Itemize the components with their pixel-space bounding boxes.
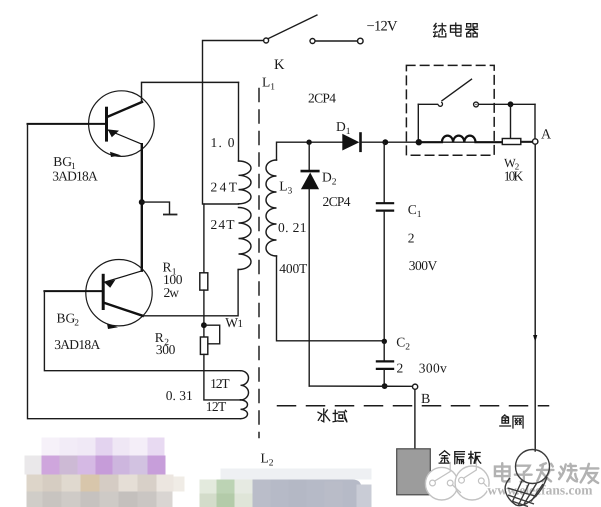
svg-text:2CP4: 2CP4 bbox=[308, 91, 336, 106]
potentiometer W1 wiper wiring bbox=[204, 325, 220, 344]
svg-text:300v: 300v bbox=[419, 361, 447, 376]
svg-text:2: 2 bbox=[397, 361, 404, 376]
label C1 2 300V bbox=[408, 202, 438, 273]
wire node B to metal plate bbox=[414, 389, 416, 449]
wire secondary bottom to C2 bbox=[277, 256, 385, 341]
wire W2 wiper bbox=[511, 104, 536, 139]
label A bbox=[541, 128, 552, 143]
transformer core (dashed) bbox=[258, 89, 260, 438]
junction dot C2 top bbox=[382, 339, 387, 344]
transformer feedback winding 12T upper bbox=[241, 371, 249, 400]
label R1 100 2w bbox=[163, 260, 183, 301]
label L3 bbox=[279, 179, 292, 197]
node B terminal bbox=[413, 384, 418, 389]
svg-text:1: 1 bbox=[270, 83, 275, 93]
wire BG2 base feedback rail bbox=[44, 291, 240, 371]
fish net sketch bbox=[505, 450, 549, 507]
label W2 10K bbox=[504, 156, 524, 184]
label D1 bbox=[336, 119, 351, 137]
svg-text:L: L bbox=[261, 451, 269, 466]
label 24T upper bbox=[211, 180, 238, 195]
label 1.0 bbox=[211, 135, 235, 150]
svg-text:12T: 12T bbox=[206, 399, 227, 414]
svg-text:0. 21: 0. 21 bbox=[278, 220, 307, 235]
label 12T lower bbox=[206, 399, 227, 414]
metal plate bbox=[397, 449, 431, 495]
wire BG1 base feedback rail bbox=[28, 124, 241, 419]
svg-text:3AD18A: 3AD18A bbox=[52, 169, 98, 184]
junction dot C1 top bbox=[382, 139, 388, 145]
label 12T upper bbox=[210, 376, 230, 391]
switch K bbox=[264, 15, 364, 44]
wire R2 to feedback tap bbox=[204, 354, 241, 400]
transformer primary winding lower 24T bbox=[239, 208, 251, 270]
svg-text:1: 1 bbox=[346, 127, 351, 137]
svg-text:K: K bbox=[274, 57, 285, 73]
transistor BG2 bbox=[44, 260, 152, 330]
wire secondary top to D1 bbox=[277, 142, 343, 160]
label -12V bbox=[367, 19, 399, 35]
junction W1 wiper dot bbox=[201, 322, 207, 328]
potentiometer W2 bbox=[502, 139, 532, 145]
junction dot relay coil left bbox=[416, 139, 422, 145]
node A terminal bbox=[533, 139, 538, 144]
resistor R2 bbox=[200, 337, 207, 354]
svg-text:L: L bbox=[262, 75, 270, 90]
wire primary center tap bbox=[204, 203, 239, 205]
wire bottom to node B bbox=[309, 385, 412, 387]
svg-text:12T: 12T bbox=[210, 376, 230, 391]
capacitor C2 bbox=[377, 341, 393, 386]
transformer feedback winding 12T lower bbox=[241, 400, 248, 419]
svg-text:24T: 24T bbox=[211, 217, 236, 232]
label K bbox=[274, 57, 285, 73]
svg-text:0. 31: 0. 31 bbox=[166, 388, 193, 403]
svg-text:W: W bbox=[225, 315, 238, 330]
svg-text:2: 2 bbox=[408, 231, 415, 246]
wire supply rail from switch down to transformer center tap bbox=[203, 41, 264, 205]
junction dot W2 wiper bbox=[508, 101, 514, 107]
mosaic watermark remnants bottom-left (decorative) bbox=[25, 438, 185, 507]
capacitor C1 bbox=[377, 142, 393, 341]
svg-text:C: C bbox=[408, 202, 417, 217]
svg-text:2: 2 bbox=[405, 343, 410, 353]
svg-text:2CP4: 2CP4 bbox=[323, 194, 351, 209]
label 水域 (water area) bbox=[318, 409, 347, 422]
wire BG1 collector to transformer top bbox=[142, 82, 239, 102]
label 金属板 (metal plate) bbox=[439, 451, 481, 464]
label W1 bbox=[225, 315, 243, 330]
svg-text:−12V: −12V bbox=[367, 19, 399, 35]
wire node A down to fish net bbox=[533, 144, 537, 451]
label B bbox=[421, 392, 430, 407]
svg-text:2: 2 bbox=[269, 459, 274, 469]
junction emitter/ground dot bbox=[139, 199, 145, 205]
label C2 bbox=[396, 335, 410, 353]
label L1 bbox=[262, 75, 275, 93]
label 2CP4 lower bbox=[323, 194, 351, 209]
diode D2 2CP4 bbox=[301, 142, 319, 386]
ground bbox=[142, 202, 177, 214]
svg-text:1: 1 bbox=[238, 318, 244, 330]
wire BG2 collector to transformer bottom bbox=[143, 269, 238, 315]
label 24T lower bbox=[211, 217, 236, 232]
label BG1 3AD18A bbox=[52, 154, 98, 184]
svg-text:2: 2 bbox=[332, 178, 337, 188]
wire R1 to R2 bbox=[203, 290, 205, 337]
svg-text:300: 300 bbox=[156, 342, 176, 357]
label L2 bbox=[261, 451, 274, 469]
svg-text:300V: 300V bbox=[409, 258, 438, 273]
relay switch contact bbox=[418, 79, 535, 142]
svg-text:BG: BG bbox=[57, 311, 76, 326]
mosaic watermark remnants bottom-center (decorative) bbox=[200, 469, 372, 507]
transistor BG1 bbox=[28, 91, 155, 157]
label 继电器 (relay) bbox=[434, 23, 478, 37]
svg-text:10K: 10K bbox=[504, 169, 524, 184]
relay coil bbox=[419, 136, 503, 143]
svg-text:D: D bbox=[336, 119, 346, 134]
wire emitter rail BG1 to BG2 bbox=[141, 144, 143, 271]
watermark logo circles (decorative) bbox=[425, 462, 491, 500]
label R2 300 bbox=[155, 330, 176, 357]
label D2 bbox=[322, 170, 337, 188]
svg-text:B: B bbox=[421, 392, 430, 407]
wire primary top bbox=[238, 82, 240, 161]
label 2CP4 top bbox=[308, 91, 336, 106]
label 鱼网 (fish net) bbox=[500, 415, 523, 428]
wire center rail to R1 bbox=[203, 204, 205, 273]
svg-text:1. 0: 1. 0 bbox=[211, 135, 235, 150]
svg-text:C: C bbox=[396, 335, 405, 350]
label 0.21 bbox=[278, 220, 307, 235]
svg-text:A: A bbox=[541, 128, 552, 143]
svg-text:400T: 400T bbox=[279, 261, 308, 276]
relay dashed box bbox=[406, 65, 494, 155]
svg-text:D: D bbox=[322, 170, 332, 185]
junction dot bottom node B bbox=[382, 383, 388, 389]
svg-text:24T: 24T bbox=[211, 180, 238, 195]
label 0.31 bbox=[166, 388, 193, 403]
svg-text:3: 3 bbox=[288, 187, 293, 197]
transformer primary winding upper 24T bbox=[239, 161, 252, 204]
transformer secondary L3 400T bbox=[266, 160, 277, 256]
svg-text:BG: BG bbox=[53, 154, 72, 169]
watermark text 电子发烧友 (decorative) bbox=[495, 463, 598, 483]
resistor R1 bbox=[200, 273, 208, 290]
svg-text:3AD18A: 3AD18A bbox=[54, 337, 100, 352]
label 2 300v bbox=[397, 361, 448, 376]
diode D1 2CP4 bbox=[342, 134, 360, 151]
water line dashed bbox=[278, 405, 549, 407]
label 400T bbox=[279, 261, 308, 276]
wire D1 to relay and W2 bbox=[361, 141, 533, 143]
svg-text:2w: 2w bbox=[164, 285, 180, 300]
svg-text:2: 2 bbox=[74, 319, 79, 329]
watermark url text (decorative) bbox=[488, 483, 594, 498]
junction dot D2 anode bbox=[306, 140, 311, 145]
svg-text:1: 1 bbox=[417, 210, 422, 220]
label BG2 3AD18A bbox=[54, 311, 100, 353]
svg-text:L: L bbox=[279, 179, 287, 194]
